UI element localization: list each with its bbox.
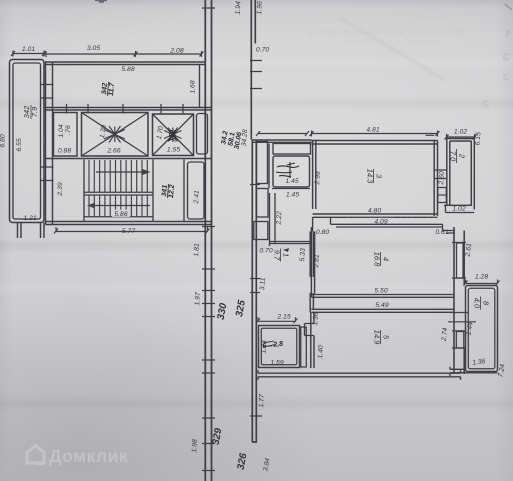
svg-text:итɔонтɔвч йомэвɔипо: итɔонтɔвч йомэвɔипо	[344, 215, 446, 223]
east wall window block	[457, 243, 464, 278]
corridor left wall	[46, 62, 53, 225]
shaft2 scribble	[167, 129, 176, 142]
svg-text:5.49: 5.49	[375, 302, 388, 309]
svg-text:1.45: 1.45	[286, 192, 299, 199]
loggia room8 outer	[466, 286, 498, 372]
wardrobe strip room B	[257, 189, 269, 218]
svg-text:1.44: 1.44	[465, 321, 474, 335]
svg-text:У: У	[505, 28, 511, 38]
apartment south wall	[258, 370, 461, 380]
svg-text:1.02: 1.02	[454, 129, 467, 136]
loggia room8 inner	[468, 288, 495, 369]
apartment west wall ticks	[250, 185, 262, 417]
corridor top wall	[45, 62, 206, 65]
svg-text:1.81: 1.81	[193, 243, 201, 257]
top right corner mark	[505, 4, 512, 10]
long wall ticks	[202, 8, 215, 471]
elevator shaft E1 box	[82, 113, 149, 157]
rooms2-3 door block	[438, 188, 447, 203]
stair up arrow	[96, 171, 148, 173]
room2 east wall	[471, 139, 474, 210]
dimension bracket 2.15	[256, 317, 298, 323]
svg-text:2.66: 2.66	[106, 148, 120, 155]
room3 south wall	[313, 214, 438, 217]
room4 west wall	[311, 227, 314, 297]
elevator shaft E1 star	[104, 126, 125, 143]
narrow room left outer wall	[10, 60, 45, 223]
room5 west wall	[311, 312, 314, 368]
room2 west wall	[447, 139, 450, 207]
svg-text:2.98: 2.98	[314, 171, 322, 186]
room1 east wall upper (room3 west wall)	[313, 141, 316, 210]
closet divider wall	[269, 144, 310, 247]
svg-text:0.88: 0.88	[58, 148, 71, 155]
corridor south wall	[313, 217, 455, 233]
svg-text:326: 326	[236, 452, 250, 471]
room8 label 8/4.0	[473, 297, 491, 310]
watermark icon	[27, 446, 44, 466]
svg-text:G: G	[482, 99, 489, 109]
dimension bracket 5.77	[54, 227, 210, 234]
elevator shaft E2 cross	[153, 114, 194, 156]
svg-text:1.74: 1.74	[261, 340, 269, 354]
svg-text:1.97: 1.97	[194, 292, 202, 306]
svg-text:5.33: 5.33	[299, 248, 307, 262]
elevator shaft E2 box	[153, 114, 194, 156]
svg-text:0.61: 0.61	[435, 229, 448, 236]
room5 west wall niche	[305, 324, 315, 336]
svg-text:2.74: 2.74	[441, 327, 449, 342]
svg-text:1.45: 1.45	[285, 178, 298, 185]
entrance wall stub left	[18, 223, 22, 239]
svg-text:1.96: 1.96	[256, 1, 264, 15]
svg-text:1.36: 1.36	[472, 358, 486, 367]
svg-text:4.81: 4.81	[366, 127, 379, 134]
svg-text:1.36: 1.36	[312, 312, 320, 326]
bathroom scribble	[276, 162, 299, 178]
svg-text:1.59: 1.59	[270, 360, 283, 367]
long west wall of right wing	[205, 0, 211, 481]
narrow room left inner wall	[13, 63, 41, 219]
wall tie ticks right of narrow room	[41, 85, 54, 181]
svg-text:1.01: 1.01	[22, 46, 35, 53]
svg-text:0.70: 0.70	[256, 47, 269, 54]
room3 east wall	[434, 141, 437, 217]
wardrobe strip room C	[254, 222, 268, 240]
svg-text:1.77: 1.77	[258, 394, 266, 408]
svg-text:330: 330	[216, 302, 230, 321]
svg-text:С: С	[503, 52, 510, 62]
fold crease faint	[340, 18, 445, 80]
dimension line 1.02 top	[445, 134, 477, 140]
svg-text:.76: .76	[65, 125, 72, 135]
stair scribble 341/12.2	[161, 183, 176, 198]
elevator row bottom wall	[46, 158, 213, 160]
svg-text:3: 3	[375, 174, 384, 179]
elevator shaft E2 star	[164, 128, 182, 142]
svg-text:3.84: 3.84	[262, 457, 271, 471]
svg-text:1.21: 1.21	[23, 215, 36, 222]
svg-text:329: 329	[211, 427, 225, 446]
door arrow mark	[283, 248, 289, 252]
stair landing lines	[84, 192, 153, 195]
svg-text:2.81: 2.81	[313, 254, 321, 269]
dimension line 4.81	[310, 131, 440, 137]
svg-text:3.11: 3.11	[259, 277, 267, 290]
stair treads upper flight	[89, 160, 147, 192]
corridor floor wall	[46, 108, 213, 111]
svg-text:1.04: 1.04	[58, 124, 65, 137]
svg-text:Домклик: Домклик	[49, 446, 128, 466]
dimension bracket 1.28	[464, 280, 500, 286]
svg-text:6.15: 6.15	[474, 132, 482, 146]
svg-text:34.28: 34.28	[241, 129, 249, 147]
svg-text:11.7: 11.7	[108, 81, 116, 96]
room2 label 2/7.0	[449, 149, 467, 163]
room2 south wall	[444, 205, 474, 212]
core block bottom wall	[46, 222, 213, 225]
rooms2-3 door block divider	[438, 194, 447, 196]
east wall balcony door block	[456, 332, 464, 349]
apartment north wall left part	[252, 140, 311, 142]
room3 north wall	[312, 141, 438, 145]
rooms4-5 division wall	[311, 295, 454, 313]
svg-text:3.05: 3.05	[87, 45, 100, 52]
svg-text:5.50: 5.50	[374, 288, 387, 295]
svg-text:1.70: 1.70	[156, 125, 165, 139]
room3 label 3/14.3	[366, 169, 384, 185]
svg-text:2.60: 2.60	[438, 171, 446, 186]
room label 342/7.9	[22, 105, 39, 119]
room1 label 1/9.7	[273, 249, 291, 262]
apartment top dim bracket left	[256, 131, 309, 136]
svg-text:5.88: 5.88	[121, 66, 134, 73]
stair treads lower flight	[89, 195, 147, 217]
duct cell lower	[188, 162, 205, 219]
party wall upper ticks	[250, 61, 262, 89]
room6 scribble 2.8	[262, 340, 284, 351]
svg-text:12.2: 12.2	[168, 184, 176, 198]
svg-text:2.15: 2.15	[276, 314, 290, 321]
svg-text:1.98: 1.98	[191, 439, 199, 453]
svg-text:шинэдошоп йинэжопоскд вмэхЭ: шинэдошоп йинэжопоскд вмэхЭ	[306, 28, 465, 36]
duct cell upper	[197, 114, 208, 155]
svg-text:1.55: 1.55	[167, 147, 180, 154]
closet box top	[273, 144, 311, 155]
svg-text:7.24: 7.24	[497, 363, 506, 377]
svg-text:5.86: 5.86	[114, 211, 127, 218]
svg-text:2.22: 2.22	[276, 211, 284, 226]
hall east wall with door	[310, 232, 313, 313]
hall north wall	[270, 242, 312, 244]
svg-text:6.55: 6.55	[16, 138, 23, 151]
svg-text:2.39: 2.39	[57, 182, 64, 196]
svg-text:2.61: 2.61	[465, 243, 473, 258]
corridor scribble 342/11.7	[101, 81, 116, 97]
stair room east wall	[183, 160, 185, 222]
entrance wall stub right	[41, 223, 45, 239]
room4 label 4/16.8	[373, 252, 391, 268]
rooms east wall	[454, 227, 464, 374]
svg-text:0.80: 0.80	[316, 229, 329, 236]
dimension line 1.01	[11, 51, 46, 57]
wc room6 outer	[259, 326, 300, 368]
svg-text:5: 5	[382, 335, 391, 340]
east wall ticks	[448, 243, 476, 349]
svg-text:4.80: 4.80	[368, 208, 381, 215]
svg-text:1.68: 1.68	[190, 80, 197, 93]
svg-text:2.08: 2.08	[169, 48, 183, 55]
svg-text:0.70: 0.70	[259, 248, 272, 255]
svg-text:5.77: 5.77	[122, 228, 135, 235]
rooms2-3 gap ticks	[426, 135, 447, 178]
svg-text:1: 1	[282, 253, 291, 257]
party wall upper	[251, 0, 255, 140]
wc room6 inner	[261, 328, 297, 365]
machine room cell	[54, 113, 78, 157]
svg-text:6.80: 6.80	[0, 134, 7, 147]
svg-text:2: 2	[458, 153, 467, 159]
svg-text:4: 4	[382, 257, 391, 261]
kitchen niche duct	[301, 327, 307, 367]
svg-text:8: 8	[482, 301, 491, 306]
stair left divider	[83, 160, 85, 222]
elevator shaft E1 cross	[82, 113, 149, 157]
wardrobe strip room A	[257, 142, 268, 184]
dimension line 3.05 / 2.08	[44, 51, 204, 57]
svg-text:1.28: 1.28	[475, 274, 488, 281]
corridor right inner wall	[199, 65, 201, 108]
stair right divider	[152, 160, 154, 222]
top edge dark mark	[95, 1, 107, 3]
dim label 5.86	[112, 210, 130, 219]
svg-text:325: 325	[234, 299, 248, 318]
apartment west wall	[252, 140, 257, 443]
closet box bathroom	[273, 156, 310, 187]
stair down arrow	[90, 205, 150, 207]
stair lower flight bottom line	[84, 216, 153, 218]
corridor floor wall ticks	[67, 104, 184, 114]
svg-text:1.70: 1.70	[99, 124, 108, 138]
svg-text:1.94: 1.94	[235, 1, 243, 15]
room5 label 5/14.9	[373, 330, 391, 346]
svg-text:2.41: 2.41	[193, 190, 201, 205]
room2 north wall	[447, 139, 475, 142]
svg-text:1.40: 1.40	[317, 345, 325, 359]
svg-text:монведх в яɔтɔядохвн: монведх в яɔтɔядохвн	[344, 38, 436, 44]
svg-text:1.02: 1.02	[452, 206, 465, 213]
svg-text:С: С	[503, 72, 510, 82]
loggia south wall	[450, 367, 498, 376]
